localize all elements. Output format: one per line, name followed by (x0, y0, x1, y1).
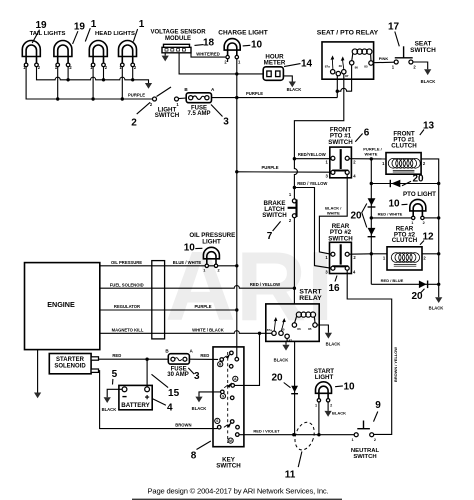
svg-text:CLUTCH: CLUTCH (392, 237, 418, 244)
svg-text:OIL PRESSURE: OIL PRESSURE (111, 260, 142, 265)
svg-text:2: 2 (423, 221, 425, 225)
head light 2 (1) (119, 41, 137, 67)
junction dots on right bus (437, 182, 440, 185)
svg-text:10: 10 (343, 382, 355, 393)
svg-text:1: 1 (315, 403, 317, 407)
svg-text:20: 20 (271, 372, 283, 383)
svg-text:8: 8 (191, 451, 197, 462)
wire MAGNETO KILL / WHITE BLACK (hop at center bus) (100, 331, 272, 334)
svg-text:2: 2 (413, 65, 416, 70)
svg-text:STARTER: STARTER (56, 357, 85, 363)
svg-text:87a: 87a (267, 328, 272, 332)
junction dot (oil line to center bus) (235, 264, 238, 267)
wire: 30-86 jumper with hop (337, 88, 351, 91)
brake latch switch S7 (292, 199, 296, 203)
svg-text:2: 2 (134, 65, 137, 70)
junction dot (131, 78, 134, 81)
hour meter (14) (237, 73, 263, 75)
wire: head light 1 t1 drop (92, 67, 94, 99)
svg-text:4: 4 (353, 173, 356, 178)
svg-text:BATTERY: BATTERY (121, 402, 150, 409)
footer dark strip (132, 499, 342, 500)
wire: charge light t2 short drop (227, 59, 229, 62)
svg-text:9: 9 (375, 400, 381, 411)
fuse F2 30 AMP (3) (168, 354, 189, 364)
svg-text:1: 1 (326, 159, 329, 164)
svg-text:WHITE: WHITE (327, 211, 340, 216)
svg-text:LIGHT: LIGHT (315, 374, 334, 381)
relay pins (350, 61, 354, 65)
svg-text:LIGHT: LIGHT (202, 238, 221, 245)
svg-text:10: 10 (388, 199, 400, 210)
junction dot (charge light drop) (235, 96, 238, 99)
relay armature arrows (331, 59, 334, 70)
svg-text:SWITCH: SWITCH (328, 139, 353, 146)
svg-text:SWITCH: SWITCH (262, 212, 287, 219)
tail light 2 (19) (54, 41, 72, 67)
wire: PTO light t2 to right bus (424, 217, 439, 219)
svg-text:2: 2 (353, 159, 356, 164)
dashed ellipse (11) (292, 420, 318, 453)
svg-text:2: 2 (289, 218, 292, 223)
svg-text:5: 5 (112, 369, 118, 380)
svg-text:30 AMP: 30 AMP (167, 372, 188, 378)
svg-text:A: A (211, 87, 215, 92)
svg-text:BROWN: BROWN (175, 423, 191, 428)
svg-text:1: 1 (203, 269, 205, 273)
svg-text:RED / WHITE: RED / WHITE (378, 211, 403, 216)
svg-text:86: 86 (297, 327, 301, 331)
junction dot (white/black branch) (258, 332, 261, 335)
tail light 1 (19) (22, 41, 40, 67)
wire + ground (seat switch) (413, 62, 428, 69)
svg-text:WHITE: WHITE (365, 151, 378, 156)
svg-text:BLACK: BLACK (429, 306, 444, 311)
wire: tail light 2 t1 drop (57, 67, 59, 99)
svg-text:20: 20 (350, 210, 362, 221)
svg-text:1: 1 (383, 256, 386, 261)
svg-text:86: 86 (355, 65, 359, 69)
junction dot (battery tap) (145, 358, 148, 361)
junction dot (56, 97, 59, 100)
wire: lights terminal-2 bus with hops (37, 67, 149, 83)
wire PURPLE/WHITE front PTO t2 to clutch (349, 158, 386, 160)
ground (right bus) (435, 297, 442, 303)
svg-text:18: 18 (203, 38, 215, 49)
svg-text:87: 87 (289, 339, 293, 343)
diode D2 (vertical, 20) (368, 198, 376, 205)
svg-text:2: 2 (353, 255, 356, 260)
ground (module) (164, 53, 166, 56)
svg-text:BLUE / WHITE: BLUE / WHITE (173, 260, 202, 265)
svg-text:2: 2 (423, 256, 426, 261)
svg-text:BLACK: BLACK (326, 341, 341, 346)
svg-text:SEAT / PTO RELAY: SEAT / PTO RELAY (317, 29, 379, 36)
svg-text:METER: METER (264, 59, 286, 66)
wire: start light t1 down (318, 402, 320, 435)
svg-text:1: 1 (238, 60, 241, 65)
neutral switch S9 (363, 421, 365, 429)
svg-text:2: 2 (131, 118, 137, 129)
wire + ground (start relay 87) (286, 339, 287, 345)
junction dot (relay feed) (336, 90, 339, 93)
svg-text:B: B (165, 348, 169, 353)
svg-text:2: 2 (374, 438, 376, 442)
svg-text:16: 16 (328, 283, 340, 294)
wire + ground (start relay 85) (317, 325, 328, 333)
svg-text:PINK: PINK (379, 56, 389, 61)
svg-text:85: 85 (308, 327, 312, 331)
wire FUEL SOLENOID / RED YELLOW (hop at center bus) (100, 286, 295, 289)
svg-text:20: 20 (412, 173, 424, 184)
battery (15) (119, 385, 152, 409)
start relay coil (296, 312, 315, 317)
starter solenoid (49, 354, 91, 374)
svg-text:2: 2 (330, 403, 332, 407)
svg-text:1: 1 (176, 102, 179, 107)
svg-text:VOLTAGE SENSOR: VOLTAGE SENSOR (150, 30, 206, 36)
svg-text:WHITE / BLACK: WHITE / BLACK (192, 327, 224, 332)
svg-text:SWITCH: SWITCH (353, 454, 376, 460)
wire + ground (start light t2) (327, 402, 329, 411)
wire + ground (hour meter) (283, 76, 292, 82)
svg-text:MAGNETO KILL: MAGNETO KILL (112, 328, 144, 333)
wire: battery pos to red wire (146, 359, 148, 387)
svg-text:BLACK: BLACK (332, 411, 346, 416)
key switch contact arrows (223, 356, 227, 359)
wire RED/VIOLET key switch to neutral switch (239, 434, 354, 436)
svg-text:2: 2 (217, 269, 219, 273)
diode D3 (vertical, 20) (368, 228, 376, 235)
svg-text:4: 4 (167, 403, 173, 414)
svg-text:Page design © 2004-2017 by ARI: Page design © 2004-2017 by ARI Network S… (148, 487, 329, 496)
diode chain vertical wire (370, 159, 372, 284)
svg-text:1: 1 (352, 438, 354, 442)
start relay pins (292, 323, 296, 327)
svg-text:RED: RED (200, 353, 209, 358)
engine (25, 263, 100, 350)
wire: module center pin drop to hour meter line (179, 53, 237, 74)
svg-text:3: 3 (326, 173, 329, 178)
key switch terminals (220, 358, 224, 362)
wire RED/BLUE with diode D4 (20) (371, 283, 438, 285)
svg-text:RELAY: RELAY (299, 295, 322, 302)
svg-text:30: 30 (339, 64, 343, 68)
svg-text:1: 1 (289, 192, 292, 197)
wire RED/YELLOW to rear PTO switch t3 (294, 188, 331, 269)
wire: rear clutch t1 feed (371, 253, 387, 255)
svg-text:RED: RED (112, 353, 121, 358)
wire + ground (key switch G) (199, 392, 221, 397)
fuse F1 7.5 AMP (186, 93, 211, 103)
svg-text:RED / YELLOW: RED / YELLOW (250, 282, 280, 287)
svg-text:10: 10 (251, 40, 263, 51)
wire: tail light 2 t2 drop (67, 67, 69, 80)
svg-text:87a: 87a (325, 64, 330, 68)
diode D1 (horizontal, 20) (371, 183, 438, 185)
ground (engine) (37, 350, 39, 393)
svg-text:7: 7 (267, 231, 273, 242)
svg-text:BLACK: BLACK (274, 357, 289, 362)
junction dot (rear clutch tap) (370, 252, 373, 255)
wire + ground (battery neg) (107, 389, 122, 397)
wire: head light 2 t2 drop (132, 67, 134, 80)
wire PINK relay 85 to seat switch (373, 61, 394, 64)
wire RED/YELLOW to front PTO switch (294, 158, 329, 160)
svg-text:A: A (190, 348, 194, 353)
junction dot (red/white tap) (370, 216, 373, 219)
svg-text:PURPLE: PURPLE (195, 304, 212, 309)
svg-text:87: 87 (345, 74, 349, 78)
svg-text:RED / YELLOW: RED / YELLOW (297, 181, 327, 186)
svg-text:BLACK: BLACK (192, 406, 207, 411)
svg-text:CLUTCH: CLUTCH (391, 143, 417, 150)
svg-text:1: 1 (411, 221, 413, 225)
svg-text:WHITE/RED: WHITE/RED (196, 52, 220, 57)
wire BROWN solenoid to key switch (99, 371, 218, 429)
wire OIL PRESSURE / BLUE WHITE (100, 265, 237, 267)
svg-text:M: M (229, 439, 232, 443)
svg-text:SOLENOID: SOLENOID (54, 363, 86, 369)
svg-text:1: 1 (392, 65, 395, 70)
wire: white/black branch down to key switch (235, 333, 260, 385)
wire BLACK/WHITE front PTO t4 to rear PTO t1 (319, 174, 347, 254)
svg-text:19: 19 (74, 22, 86, 33)
svg-text:10: 10 (184, 242, 196, 253)
svg-text:85: 85 (364, 65, 368, 69)
svg-text:REGULATOR: REGULATOR (114, 304, 140, 309)
wire: purple bus fuse to relay (212, 97, 338, 99)
junction dot (102, 78, 105, 81)
svg-text:BLACK: BLACK (421, 79, 436, 84)
oil pressure light (10) (203, 247, 219, 267)
key switch S8 (213, 347, 244, 447)
ground (lights bus) (145, 83, 152, 89)
wire: light switch to fuse (179, 97, 187, 100)
svg-text:SWITCH: SWITCH (410, 47, 436, 54)
svg-text:G: G (222, 394, 225, 398)
svg-text:PURPLE: PURPLE (128, 92, 145, 97)
wire: brake latch to start relay (293, 218, 295, 304)
wire: charge light t1 drop to purple bus (236, 59, 238, 98)
svg-text:PTO LIGHT: PTO LIGHT (403, 191, 436, 198)
PTO bus: hop over purple, brake latch, down to start relay (293, 157, 296, 160)
svg-text:CHARGE LIGHT: CHARGE LIGHT (218, 30, 268, 37)
wire: rear PTO t2 to diode chain (349, 253, 371, 255)
wire: front clutch t2 to right bus (421, 159, 439, 297)
svg-text:2: 2 (38, 65, 41, 70)
svg-text:19: 19 (35, 20, 47, 31)
svg-text:6: 6 (364, 128, 370, 139)
svg-text:4: 4 (353, 269, 356, 274)
svg-text:SWITCH: SWITCH (155, 112, 180, 119)
svg-text:3: 3 (223, 116, 229, 127)
svg-text:1: 1 (382, 161, 385, 166)
wire REGULATOR / PURPLE (100, 309, 237, 311)
svg-text:SWITCH: SWITCH (328, 235, 353, 242)
svg-text:17: 17 (388, 22, 400, 33)
wire: rear clutch t2 to right bus (422, 253, 439, 255)
svg-text:HEAD LIGHTS: HEAD LIGHTS (95, 31, 135, 37)
relay coil (352, 49, 372, 54)
svg-text:MODULE: MODULE (165, 36, 191, 42)
key switch lettered terminals (215, 362, 238, 444)
svg-text:RED / BLUE: RED / BLUE (381, 278, 404, 283)
wire: relay 87 drop to PTO bus (294, 74, 343, 159)
svg-text:TAIL LIGHTS: TAIL LIGHTS (30, 31, 66, 37)
wire: relay 86 lead down (351, 65, 353, 92)
head light 1 (1) (89, 41, 107, 67)
junction dot (91, 97, 94, 100)
wire RED/WHITE to PTO light (371, 217, 411, 219)
svg-text:PURPLE: PURPLE (246, 91, 263, 96)
junction dot (66, 78, 69, 81)
center bus (charge light to key switch, hop at magneto line) (236, 98, 238, 358)
engine connector bar (152, 261, 165, 339)
junction dot (regulator to center bus) (235, 308, 238, 311)
svg-text:B: B (184, 87, 188, 92)
charge light (10) (224, 39, 240, 59)
junction dot (121, 97, 124, 100)
svg-text:3: 3 (194, 371, 200, 382)
junction dot (hour meter tap) (235, 72, 238, 75)
svg-text:ENGINE: ENGINE (47, 300, 75, 309)
svg-text:2: 2 (423, 161, 426, 166)
svg-text:2: 2 (69, 65, 72, 70)
svg-text:1: 1 (139, 19, 145, 30)
svg-text:RED / VIOLET: RED / VIOLET (253, 428, 280, 433)
svg-text:7.5 AMP: 7.5 AMP (187, 111, 210, 117)
wire WHITE/RED module to charge light t2 (191, 53, 225, 57)
svg-text:RED/YELLOW: RED/YELLOW (298, 152, 326, 157)
svg-text:BLACK: BLACK (287, 87, 302, 92)
start relay armature arrows (274, 320, 275, 331)
svg-text:BLACK: BLACK (102, 407, 117, 412)
wire RED solenoid to key switch (99, 358, 169, 360)
svg-text:13: 13 (423, 121, 435, 132)
light switch S2 (153, 97, 157, 101)
svg-text:FUEL SOLENOID: FUEL SOLENOID (110, 282, 144, 287)
svg-text:2: 2 (105, 65, 108, 70)
svg-text:BROWN / YELLOW: BROWN / YELLOW (393, 347, 398, 382)
svg-text:11: 11 (285, 470, 296, 481)
wire: start relay to red/violet with diode D5 (20) (294, 341, 296, 434)
svg-text:PURPLE: PURPLE (262, 165, 279, 170)
wire: head light 1 t2 drop (103, 67, 105, 80)
svg-text:15: 15 (168, 388, 180, 399)
wire PURPLE center bus to front PTO t3 (hop at PTO bus) (237, 171, 331, 173)
wire: lights terminal-1 bus (26, 67, 152, 99)
wire BROWN/YELLOW rear PTO t4 to neutral switch (347, 270, 392, 434)
svg-text:1: 1 (91, 19, 97, 30)
wire: head light 2 t1 drop (121, 67, 123, 99)
wire: relay 30 drop to purple bus (336, 76, 338, 98)
svg-text:2: 2 (224, 60, 227, 65)
svg-text:SWITCH: SWITCH (216, 463, 241, 470)
svg-text:14: 14 (301, 59, 313, 70)
